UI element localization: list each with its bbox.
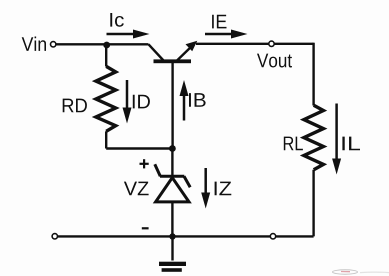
wire right branch lower — [312, 170, 314, 237]
label + (zener positive) — [140, 159, 149, 168]
current arrow IL — [332, 104, 341, 175]
node C (junction dot, ground) — [169, 233, 175, 239]
current arrow IB — [180, 80, 189, 121]
wire emitter to Vout corner — [196, 43, 314, 45]
current arrow ID — [123, 80, 132, 124]
current arrow IZ — [201, 168, 210, 209]
wire RD to node B — [106, 147, 172, 149]
label IB — [189, 93, 206, 107]
label Vout — [257, 54, 292, 68]
wire Vin to node A — [56, 43, 106, 45]
wire bottom rail — [58, 235, 314, 237]
label VZ — [124, 182, 149, 196]
resistor RL — [304, 105, 324, 169]
wire transistor base down — [171, 63, 173, 149]
terminal Vout (open circle) — [269, 41, 274, 46]
wire RD top lead — [105, 44, 107, 66]
current arrow Ic — [107, 30, 150, 39]
terminal bottom-left (open circle) — [52, 234, 57, 239]
wire RD bottom lead — [105, 131, 107, 148]
watermark (faint, bottom right) — [333, 270, 389, 274]
label IE — [212, 15, 226, 29]
label RD — [63, 99, 87, 113]
terminal bottom-right (open circle) — [270, 234, 275, 239]
transistor Q (pass transistor, NPN) — [149, 41, 198, 63]
terminal Vin (open circle) — [51, 42, 56, 47]
resistor RD — [96, 66, 116, 131]
node A (junction dot, Vin/RD/collector) — [103, 42, 110, 49]
wire right branch upper — [312, 43, 314, 106]
wire node A to transistor collector — [107, 43, 149, 45]
wire zener anode to ground rail — [171, 202, 173, 237]
zener diode VZ — [155, 164, 190, 202]
current arrow IE — [205, 30, 248, 39]
node B (junction dot, RD/base/zener) — [169, 145, 176, 152]
ground — [159, 237, 186, 272]
wire node B to zener cathode — [171, 149, 173, 177]
label IZ — [215, 182, 232, 196]
label Vin — [22, 37, 46, 51]
label Ic — [110, 13, 124, 27]
label - (zener negative) — [142, 227, 149, 229]
label IL — [342, 137, 360, 151]
label RL — [284, 137, 303, 151]
label ID — [133, 95, 150, 109]
